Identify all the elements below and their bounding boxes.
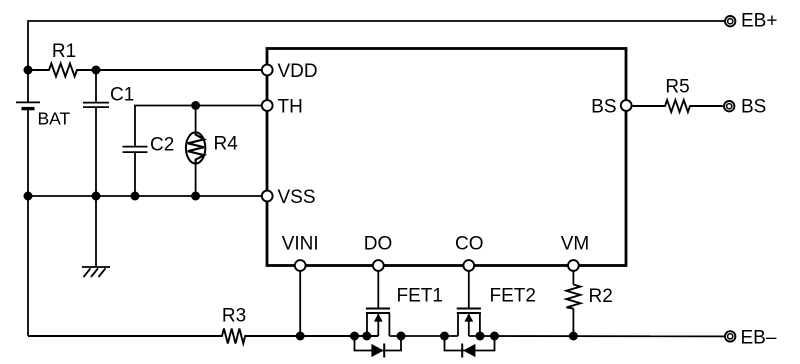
body diode FET1 xyxy=(355,336,402,358)
transistor FET2 xyxy=(457,271,481,336)
svg-text:TH: TH xyxy=(278,96,303,117)
svg-text:R5: R5 xyxy=(665,76,689,97)
svg-text:DO: DO xyxy=(364,233,393,254)
node VSS left xyxy=(24,192,33,201)
resistor R2 xyxy=(566,271,580,336)
resistor R3 with bottom rail left segment xyxy=(28,329,378,344)
pin DO xyxy=(373,260,384,271)
svg-text:C1: C1 xyxy=(110,85,134,106)
svg-text:FET2: FET2 xyxy=(490,285,536,306)
body diode FET2 xyxy=(445,336,495,358)
terminal BS xyxy=(724,101,734,111)
node VSS R4 xyxy=(191,192,200,201)
transistor FET1 xyxy=(366,271,390,336)
svg-text:CO: CO xyxy=(455,233,484,254)
resistor R5 xyxy=(633,100,723,112)
node VSS C1 xyxy=(92,192,101,201)
wire top rail EB+ xyxy=(28,21,724,103)
pin VM xyxy=(568,260,579,271)
svg-text:VM: VM xyxy=(561,233,590,254)
svg-text:R2: R2 xyxy=(589,286,613,307)
node VSS C2 xyxy=(131,192,140,201)
svg-text:EB–: EB– xyxy=(741,328,777,349)
svg-text:VSS: VSS xyxy=(278,187,316,208)
IC U1 box xyxy=(267,49,626,266)
svg-text:VDD: VDD xyxy=(278,61,318,82)
wire bottom rail FET1-FET2 xyxy=(389,335,458,337)
svg-text:R3: R3 xyxy=(222,306,246,327)
svg-text:R4: R4 xyxy=(214,133,239,154)
svg-text:R1: R1 xyxy=(52,41,76,62)
capacitor C1 xyxy=(83,70,109,196)
terminal EB- xyxy=(725,331,735,341)
node VINI bottom xyxy=(296,332,305,341)
node R1 left xyxy=(24,66,33,75)
wire VSS rail xyxy=(28,195,262,197)
node FET2 diode right xyxy=(490,332,499,341)
wire TH rail xyxy=(135,106,262,146)
terminal EB+ xyxy=(725,16,735,26)
pin CO xyxy=(463,260,474,271)
resistor R1 xyxy=(28,64,262,77)
svg-text:FET1: FET1 xyxy=(397,285,443,306)
wire battery to bottom rail xyxy=(27,109,29,336)
pin VDD xyxy=(262,65,273,76)
thermistor R4 xyxy=(186,106,205,197)
ground xyxy=(82,196,110,277)
pin VINI xyxy=(295,260,306,271)
battery BAT xyxy=(16,102,40,108)
svg-text:BS: BS xyxy=(741,97,766,118)
node FET2 diode left xyxy=(440,332,449,341)
node FET1 diode left xyxy=(350,332,359,341)
node R2 bottom xyxy=(569,332,578,341)
capacitor C2 xyxy=(123,147,148,196)
svg-text:EB+: EB+ xyxy=(741,10,777,31)
svg-text:VINI: VINI xyxy=(282,233,319,254)
svg-text:BAT: BAT xyxy=(38,109,71,129)
wire VINI to bottom rail xyxy=(299,271,301,336)
node R1 right xyxy=(92,66,101,75)
pin BS xyxy=(621,100,632,111)
pin VSS xyxy=(262,191,273,202)
node FET1 source xyxy=(362,332,371,341)
wire bottom rail right segment xyxy=(469,335,725,337)
pin TH xyxy=(262,100,273,111)
node FET1 diode right xyxy=(397,332,406,341)
node TH R4 xyxy=(191,101,200,110)
node FET2 source xyxy=(476,332,485,341)
svg-text:C2: C2 xyxy=(150,135,174,156)
svg-text:BS: BS xyxy=(591,96,616,117)
